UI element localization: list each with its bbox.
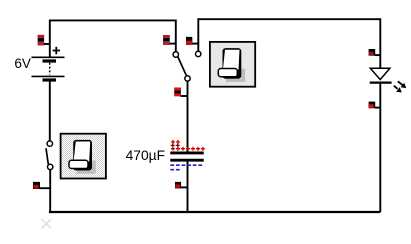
wire battery to switch S1 [49,81,51,141]
wire bottom [49,211,380,213]
switch S2 (changeover) contact left [173,52,178,57]
capacitor C1 bottom plate [170,159,203,162]
switch S1 body box [61,134,106,179]
battery B1 plate 2 (short thick) [43,59,57,62]
wire left vertical upper (top wire to battery) [49,20,51,58]
wire right loop left vertical [197,18,199,51]
capacitor negative charges row 2 [170,169,181,171]
wire changeover pole to capacitor [187,81,189,152]
switch S1 contact top [47,141,52,146]
capacitor positive charges row A [171,140,180,144]
battery B1 dashed middle [49,63,51,75]
battery B1 plate 1 (long) [32,56,65,58]
node marker M3 (right loop top left) [186,37,198,45]
wire top left loop [50,19,176,21]
switch S1 contact bottom [48,164,53,169]
LED D1 triangle [370,68,390,79]
LED D1 cathode bar [370,81,392,83]
LED D1 light arrow 1 [398,81,406,88]
node marker M2 (left loop top right) [163,35,176,45]
cursor artifact X [42,219,52,229]
capacitor positive charges row B [171,143,180,147]
switch S2 pole contact [185,76,190,81]
capacitor C1 top plate [170,151,203,154]
switch S2 contact right [196,51,201,56]
switch S1 lever (open) [46,148,48,164]
node marker M4a (pole to capacitor) [174,88,187,97]
wire right vertical upper (to LED) [379,18,381,67]
switch S2 lever (closed to left) [178,57,187,76]
battery B1 plate 3 (long) [32,75,65,77]
battery B1 plate 4 (short thick) [43,78,57,81]
wire left loop right vertical [175,20,177,52]
node marker M4b (capacitor bottom) [175,182,188,189]
wire LED to bottom [379,83,381,212]
node marker M7 (LED bottom) [369,102,381,109]
LED D1 light arrow 2 [394,86,402,93]
node marker M6 (LED top) [369,49,381,56]
capacitor positive charges row C [171,147,205,151]
node marker M1 (battery top) [38,35,50,45]
battery B1 plus sign [53,47,60,55]
capacitor negative charges row 1 [170,164,203,166]
svg-text:6V: 6V [14,56,31,71]
svg-text:470µF: 470µF [126,148,165,163]
node marker M5 (battery bottom) [33,182,50,189]
wire switch S1 to bottom [49,170,51,212]
wire capacitor to bottom [187,160,189,212]
wire right loop top [198,18,380,20]
switch S2 body box [210,42,255,87]
